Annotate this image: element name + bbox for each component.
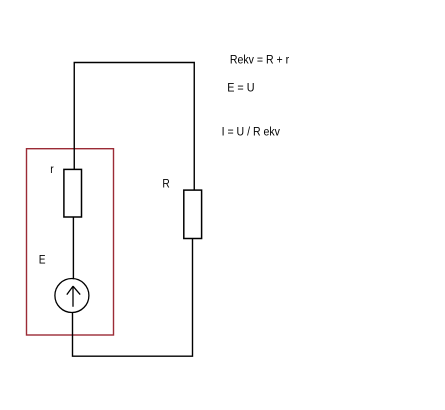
resistor R [184, 190, 202, 238]
resistor r [64, 169, 82, 217]
svg-text:E = U: E = U [227, 82, 254, 95]
svg-text:Rekv = R + r: Rekv = R + r [230, 54, 289, 67]
svg-text:R: R [162, 178, 169, 191]
svg-text:I = U / R ekv: I = U / R ekv [222, 126, 281, 139]
svg-text:r: r [50, 164, 54, 177]
svg-text:E: E [39, 254, 46, 267]
arrow inside source [67, 286, 80, 307]
wire: r bottom to source E [72, 217, 74, 279]
wire: source bottom, bottom run, right lower riser [73, 238, 193, 356]
red box (source with internal resistance outline) [27, 149, 114, 335]
voltage source E (circle) [55, 279, 89, 313]
wire top loop: left riser, top run, right riser [74, 63, 194, 191]
